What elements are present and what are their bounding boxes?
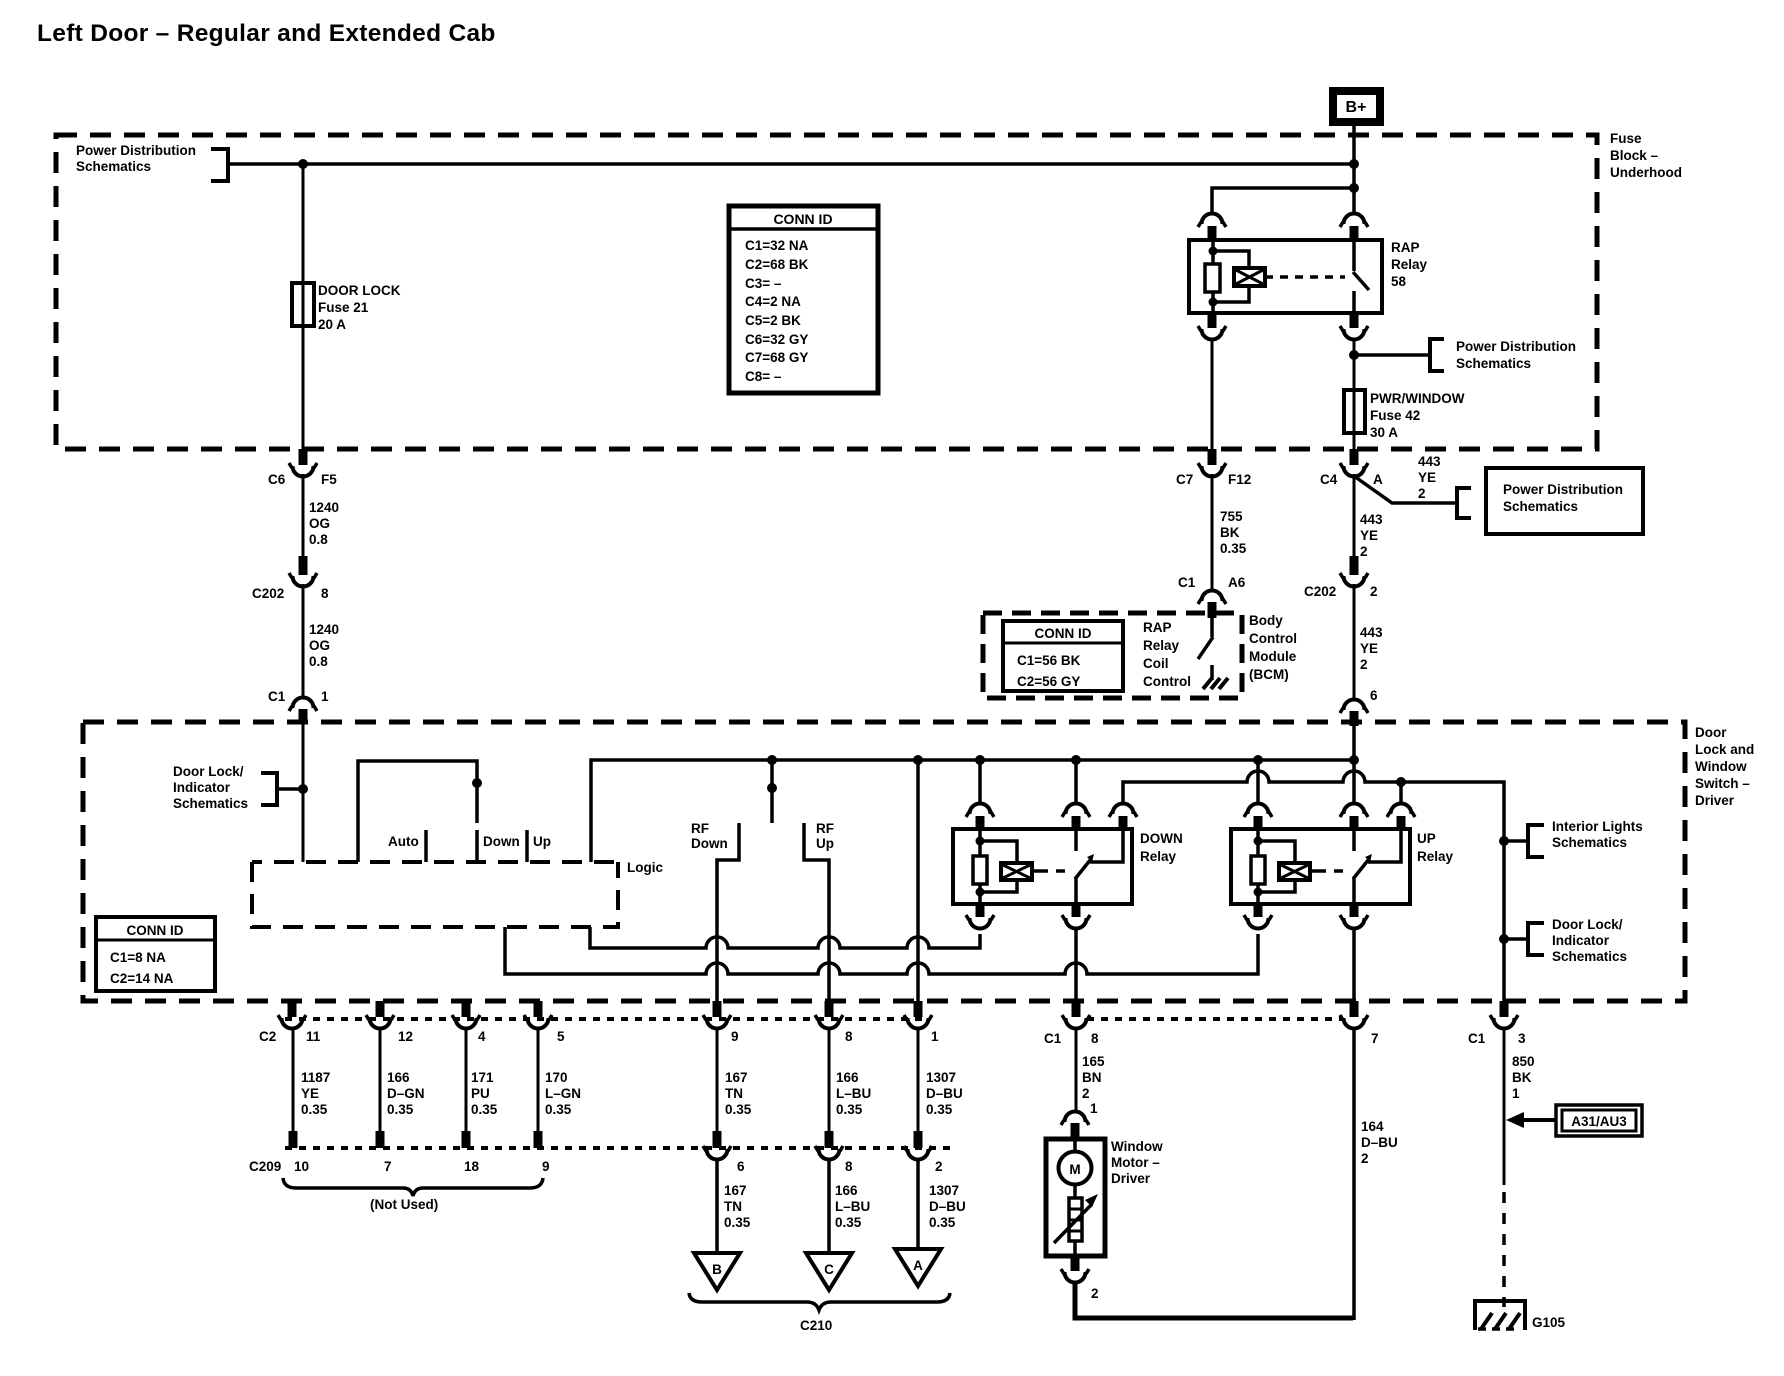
CONN ID table (BCM) (1003, 621, 1123, 691)
svg-text:C6: C6 (268, 472, 286, 487)
svg-text:C6=32 GY: C6=32 GY (745, 332, 808, 347)
wire 166 D-GN (379, 1028, 382, 1133)
svg-text:C1=8 NA: C1=8 NA (110, 950, 166, 965)
svg-text:1307: 1307 (926, 1070, 956, 1085)
wire 167 TN lower (715, 1158, 719, 1253)
svg-text:9: 9 (542, 1159, 550, 1174)
svg-text:2: 2 (1418, 486, 1426, 501)
wire 755 BK (1211, 474, 1214, 590)
connector C1 pin8 (1044, 1001, 1099, 1046)
connector pin5 (524, 1001, 565, 1044)
svg-text:Up: Up (816, 836, 834, 851)
switch assembly dashed outline (252, 862, 618, 927)
svg-text:C2=56 GY: C2=56 GY (1017, 674, 1080, 689)
svg-text:0.35: 0.35 (1220, 541, 1247, 556)
svg-text:YE: YE (1418, 470, 1436, 485)
connector C209 pin10 (289, 1131, 298, 1148)
connector C4/A (1320, 449, 1383, 487)
wire 170 L-GN (537, 1028, 540, 1133)
svg-text:Module: Module (1249, 649, 1297, 664)
svg-text:0.35: 0.35 (836, 1102, 863, 1117)
interior lights schematics tap (1499, 836, 1509, 846)
svg-text:0.35: 0.35 (926, 1102, 953, 1117)
svg-text:Underhood: Underhood (1610, 165, 1682, 180)
wire 167 TN (716, 1028, 719, 1133)
node C off-page triangle (806, 1253, 852, 1290)
svg-text:C1: C1 (1044, 1031, 1062, 1046)
svg-text:D–BU: D–BU (929, 1199, 966, 1214)
svg-text:RF: RF (816, 821, 834, 836)
svg-text:D–BU: D–BU (1361, 1135, 1398, 1150)
svg-text:0.35: 0.35 (724, 1215, 751, 1230)
node bus junction UP relay coil (1253, 755, 1263, 765)
svg-text:C2=14 NA: C2=14 NA (110, 971, 174, 986)
wire 1307 D-BU lower (916, 1158, 920, 1249)
svg-text:Schematics: Schematics (76, 159, 151, 174)
svg-text:Door Lock/: Door Lock/ (1552, 917, 1623, 932)
svg-text:CONN ID: CONN ID (773, 211, 832, 227)
svg-text:Driver: Driver (1111, 1171, 1151, 1186)
wire A column drop (916, 760, 920, 1001)
svg-text:RAP: RAP (1143, 620, 1172, 635)
connector pin7 (1340, 1001, 1379, 1046)
svg-text:4: 4 (478, 1029, 486, 1044)
fuse block underhood dashed box (56, 135, 1597, 449)
wire 443 YE mid (1353, 474, 1356, 558)
svg-text:Auto: Auto (388, 834, 419, 849)
svg-text:TN: TN (724, 1199, 742, 1214)
svg-text:C202: C202 (1304, 584, 1336, 599)
svg-text:PU: PU (471, 1086, 490, 1101)
node A31/AU3 reference (1506, 1105, 1642, 1136)
svg-text:Schematics: Schematics (1552, 835, 1627, 850)
svg-text:F5: F5 (321, 472, 337, 487)
svg-text:BN: BN (1082, 1070, 1102, 1085)
svg-text:Fuse 21: Fuse 21 (318, 300, 369, 315)
svg-text:1: 1 (1090, 1101, 1098, 1116)
svg-text:Down: Down (483, 834, 520, 849)
svg-text:G105: G105 (1532, 1315, 1566, 1330)
svg-text:1240: 1240 (309, 622, 339, 637)
CONN ID table (fuse block) (729, 206, 878, 393)
svg-text:1240: 1240 (309, 500, 339, 515)
svg-text:Window: Window (1695, 759, 1747, 774)
CONN ID table (door switch) (96, 917, 215, 991)
ground (BCM internal) (1203, 678, 1228, 689)
connector pin7 (C209) (376, 1131, 385, 1148)
svg-text:2: 2 (1360, 657, 1368, 672)
wire motor return to pin7 (1075, 1281, 1353, 1318)
svg-text:Relay: Relay (1140, 849, 1177, 864)
connector C6/F5 (268, 449, 337, 487)
connector pin1 (904, 1001, 939, 1044)
relay RAP Relay 58 (1189, 214, 1428, 340)
svg-text:165: 165 (1082, 1054, 1105, 1069)
ground G105 (1473, 1299, 1566, 1330)
connector pin9 (703, 1001, 739, 1044)
fuse F42 PWR/WINDOW (1344, 390, 1365, 433)
svg-text:C209: C209 (249, 1159, 281, 1174)
connector row C209 dotted line (285, 1146, 950, 1150)
svg-text:0.8: 0.8 (309, 654, 328, 669)
svg-text:7: 7 (1371, 1031, 1379, 1046)
svg-text:Schematics: Schematics (1552, 949, 1627, 964)
node A off-page triangle (895, 1249, 941, 1286)
svg-text:30 A: 30 A (1370, 425, 1398, 440)
wire fuse column down (302, 164, 305, 449)
svg-text:6: 6 (1370, 688, 1378, 703)
svg-text:0.35: 0.35 (835, 1215, 862, 1230)
svg-text:Schematics: Schematics (173, 796, 248, 811)
node power distribution tap right (1349, 350, 1359, 360)
contact Up (525, 830, 529, 862)
svg-text:C1: C1 (268, 689, 286, 704)
svg-text:DOWN: DOWN (1140, 831, 1183, 846)
svg-text:Body: Body (1249, 613, 1283, 628)
contact Auto (424, 830, 428, 862)
brace C210 (689, 1293, 950, 1310)
svg-text:Control: Control (1143, 674, 1191, 689)
svg-text:443: 443 (1418, 454, 1441, 469)
wire up relay out to pin7 (1352, 927, 1356, 1001)
svg-text:B+: B+ (1346, 99, 1367, 116)
svg-text:18: 18 (464, 1159, 480, 1174)
svg-text:6: 6 (737, 1159, 745, 1174)
svg-text:C1=32 NA: C1=32 NA (745, 238, 809, 253)
svg-text:Power Distribution: Power Distribution (76, 143, 196, 158)
svg-text:Indicator: Indicator (173, 780, 231, 795)
connector pin2 row2 (904, 1131, 943, 1174)
svg-text:2: 2 (1361, 1151, 1369, 1166)
svg-text:10: 10 (294, 1159, 309, 1174)
node bus junction RF common (767, 755, 777, 765)
svg-text:C1=56 BK: C1=56 BK (1017, 653, 1081, 668)
svg-text:Power Distribution: Power Distribution (1503, 482, 1623, 497)
svg-text:C1: C1 (1178, 575, 1196, 590)
wire relay NO contacts rail y782 (1123, 771, 1504, 1001)
node bus junction DOWN relay coil (975, 755, 985, 765)
battery feed B+ (1333, 91, 1380, 122)
bus logic to up relay coil y974 (505, 927, 1258, 974)
svg-text:L–BU: L–BU (835, 1199, 870, 1214)
svg-text:Schematics: Schematics (1456, 356, 1531, 371)
svg-text:C2: C2 (259, 1029, 276, 1044)
svg-text:2: 2 (935, 1159, 943, 1174)
svg-text:D–BU: D–BU (926, 1086, 963, 1101)
node bus junction DOWN relay common (1071, 755, 1081, 765)
svg-text:2: 2 (1082, 1086, 1090, 1101)
connector pin6 row2 (703, 1131, 745, 1174)
svg-text:Switch –: Switch – (1695, 776, 1750, 791)
svg-text:0.35: 0.35 (545, 1102, 572, 1117)
svg-text:1: 1 (321, 689, 329, 704)
svg-text:Motor –: Motor – (1111, 1155, 1160, 1170)
wire 1187 YE (292, 1028, 295, 1133)
svg-text:7: 7 (384, 1159, 392, 1174)
svg-text:Relay: Relay (1391, 257, 1428, 272)
svg-text:Door: Door (1695, 725, 1727, 740)
svg-text:Control: Control (1249, 631, 1297, 646)
connector C202/2 right (1304, 556, 1378, 599)
svg-text:Schematics: Schematics (1503, 499, 1578, 514)
svg-text:CONN ID: CONN ID (127, 923, 184, 938)
svg-text:C8= –: C8= – (745, 369, 782, 384)
svg-text:2: 2 (1370, 584, 1378, 599)
svg-text:443: 443 (1360, 512, 1383, 527)
wire down relay out to C1 pin8 (1074, 927, 1078, 1001)
svg-text:C: C (824, 1262, 834, 1277)
svg-text:Left Door – Regular and Extend: Left Door – Regular and Extended Cab (37, 20, 496, 47)
svg-text:443: 443 (1360, 625, 1383, 640)
svg-text:11: 11 (306, 1029, 321, 1044)
wire 443 YE tap to power dist box (1354, 476, 1457, 503)
connector motor pin2 (1061, 1256, 1099, 1301)
door lock and window switch driver dashed box (83, 722, 1685, 1001)
svg-text:850: 850 (1512, 1054, 1535, 1069)
svg-text:5: 5 (557, 1029, 565, 1044)
svg-text:8: 8 (845, 1159, 853, 1174)
svg-text:YE: YE (301, 1086, 319, 1101)
svg-text:167: 167 (725, 1070, 748, 1085)
svg-text:0.35: 0.35 (387, 1102, 414, 1117)
svg-text:BK: BK (1220, 525, 1240, 540)
brace not used group (283, 1178, 543, 1196)
svg-text:166: 166 (836, 1070, 859, 1085)
connector C1 pin3 (1468, 1001, 1526, 1046)
svg-text:RAP: RAP (1391, 240, 1420, 255)
svg-text:A: A (1373, 472, 1383, 487)
svg-text:170: 170 (545, 1070, 568, 1085)
relay UP Relay (1231, 726, 1454, 929)
connector motor pin1 (1061, 1101, 1098, 1139)
svg-text:C4: C4 (1320, 472, 1338, 487)
svg-text:BK: BK (1512, 1070, 1532, 1085)
wire branch to RAP coil y188 (1212, 188, 1354, 215)
wire 850 BK (1503, 1028, 1506, 1185)
svg-text:1187: 1187 (301, 1070, 330, 1085)
wire ground run dashed (1502, 1192, 1506, 1307)
wire 166 L-BU (828, 1028, 831, 1133)
door lock indicator schematics tap right (1499, 934, 1509, 944)
node junction at B+ column (1349, 159, 1359, 169)
switch RAP relay coil control (BCM) (1210, 618, 1214, 637)
svg-text:A6: A6 (1228, 575, 1246, 590)
connector row C2 dotted line (285, 1017, 925, 1021)
wire B+ down to relay (1352, 122, 1356, 215)
svg-text:C5=2 BK: C5=2 BK (745, 313, 801, 328)
svg-text:Interior Lights: Interior Lights (1552, 819, 1643, 834)
svg-text:A31/AU3: A31/AU3 (1571, 1114, 1627, 1129)
svg-text:F12: F12 (1228, 472, 1251, 487)
svg-text:L–BU: L–BU (836, 1086, 871, 1101)
wire 443 YE lower (1353, 584, 1356, 698)
svg-text:D–GN: D–GN (387, 1086, 425, 1101)
svg-text:2: 2 (1091, 1286, 1099, 1301)
svg-text:C210: C210 (800, 1318, 832, 1333)
svg-text:12: 12 (398, 1029, 413, 1044)
svg-text:Relay: Relay (1143, 638, 1180, 653)
svg-text:Down: Down (691, 836, 728, 851)
svg-text:Window: Window (1111, 1139, 1163, 1154)
connector pin18 (462, 1131, 471, 1148)
svg-text:RF: RF (691, 821, 709, 836)
svg-text:164: 164 (1361, 1119, 1384, 1134)
svg-text:Lock and: Lock and (1695, 742, 1754, 757)
svg-text:1307: 1307 (929, 1183, 959, 1198)
fuse F21 DOOR LOCK (292, 283, 314, 326)
svg-text:166: 166 (387, 1070, 410, 1085)
svg-text:8: 8 (1091, 1031, 1099, 1046)
motor Window Motor Driver (1046, 1139, 1105, 1256)
svg-text:Relay: Relay (1417, 849, 1454, 864)
svg-text:Fuse 42: Fuse 42 (1370, 408, 1420, 423)
wire C4 column relay to connector (1353, 338, 1356, 449)
svg-text:3: 3 (1518, 1031, 1526, 1046)
svg-text:C4=2 NA: C4=2 NA (745, 294, 801, 309)
bus logic to down relay coil y948 (590, 927, 980, 948)
connector pin8 (815, 1001, 853, 1044)
svg-text:Indicator: Indicator (1552, 933, 1610, 948)
svg-text:0.35: 0.35 (929, 1215, 956, 1230)
power distribution schematics box (1486, 468, 1643, 534)
wire C7 column relay to connector (1211, 338, 1214, 449)
connector pin8 row2 (815, 1131, 853, 1174)
svg-text:C2=68 BK: C2=68 BK (745, 257, 809, 272)
svg-text:TN: TN (725, 1086, 743, 1101)
wire 164 D-BU (1352, 1028, 1356, 1320)
svg-text:2: 2 (1360, 544, 1368, 559)
svg-text:Fuse: Fuse (1610, 131, 1642, 146)
svg-text:1: 1 (1512, 1086, 1520, 1101)
svg-text:(Not Used): (Not Used) (370, 1197, 438, 1212)
svg-text:B: B (712, 1262, 722, 1277)
svg-text:Door Lock/: Door Lock/ (173, 764, 244, 779)
wire RF common drop (770, 760, 774, 823)
connector C1/A6 (1178, 575, 1246, 618)
node junction at RAP coil branch (1349, 183, 1359, 193)
bus supply rail y760 (591, 760, 1354, 862)
svg-text:C202: C202 (252, 586, 284, 601)
svg-text:9: 9 (731, 1029, 739, 1044)
connector 6 (1340, 688, 1378, 726)
wire C1 pin1 into switch (302, 722, 305, 862)
node junction at door lock fuse (298, 159, 308, 169)
svg-text:UP: UP (1417, 831, 1436, 846)
svg-text:DOOR LOCK: DOOR LOCK (318, 283, 401, 298)
connector C7/F12 (1176, 449, 1251, 487)
svg-text:C3= –: C3= – (745, 276, 782, 291)
svg-text:CONN ID: CONN ID (1035, 626, 1092, 641)
svg-text:1: 1 (931, 1029, 939, 1044)
module BCM dashed box (983, 613, 1242, 698)
connector pin12 (366, 1001, 413, 1044)
svg-text:C1: C1 (1468, 1031, 1486, 1046)
svg-text:8: 8 (845, 1029, 853, 1044)
node junction UP relay NO contact (1396, 777, 1406, 787)
svg-text:L–GN: L–GN (545, 1086, 581, 1101)
node B off-page triangle (694, 1253, 740, 1290)
svg-text:0.35: 0.35 (471, 1102, 498, 1117)
svg-text:M: M (1069, 1162, 1080, 1177)
svg-text:167: 167 (724, 1183, 747, 1198)
node bus junction pin1 feed (913, 755, 923, 765)
svg-text:Coil: Coil (1143, 656, 1169, 671)
connector pin4 (452, 1001, 486, 1044)
wire 1307 D-BU (917, 1028, 920, 1133)
svg-text:755: 755 (1220, 509, 1243, 524)
relay DOWN Relay (953, 760, 1183, 929)
svg-text:OG: OG (309, 638, 330, 653)
svg-text:OG: OG (309, 516, 330, 531)
node bus junction supply pin6 (1349, 755, 1359, 765)
wire 166 L-BU lower (827, 1158, 831, 1253)
wire 165 BN motor feed (1075, 1028, 1078, 1112)
svg-text:171: 171 (471, 1070, 494, 1085)
svg-text:58: 58 (1391, 274, 1407, 289)
svg-text:YE: YE (1360, 641, 1378, 656)
svg-text:Driver: Driver (1695, 793, 1735, 808)
connector C2 pin11 (259, 1001, 321, 1044)
connector C1/1 switch (268, 689, 329, 724)
svg-text:Power Distribution: Power Distribution (1456, 339, 1576, 354)
wire 1240 OG lower (302, 584, 305, 696)
wire 1240 OG upper (302, 474, 305, 558)
svg-text:A: A (913, 1258, 923, 1273)
svg-text:0.35: 0.35 (301, 1102, 328, 1117)
wire 171 PU (465, 1028, 468, 1133)
svg-text:Up: Up (533, 834, 551, 849)
svg-text:(BCM): (BCM) (1249, 667, 1289, 682)
svg-text:C7=68 GY: C7=68 GY (745, 350, 808, 365)
wire main feed y164 (228, 162, 1354, 166)
connector C202/8 left (252, 556, 329, 601)
svg-text:YE: YE (1360, 528, 1378, 543)
svg-text:PWR/WINDOW: PWR/WINDOW (1370, 391, 1465, 406)
svg-text:20 A: 20 A (318, 317, 346, 332)
svg-text:C7: C7 (1176, 472, 1193, 487)
switch auto/down/up loop (358, 761, 477, 862)
svg-text:Logic: Logic (627, 860, 663, 875)
svg-text:0.35: 0.35 (725, 1102, 752, 1117)
connector pin9 (C209) (534, 1131, 543, 1148)
svg-text:0.8: 0.8 (309, 532, 328, 547)
svg-text:8: 8 (321, 586, 329, 601)
svg-text:166: 166 (835, 1183, 858, 1198)
svg-text:Block –: Block – (1610, 148, 1659, 163)
